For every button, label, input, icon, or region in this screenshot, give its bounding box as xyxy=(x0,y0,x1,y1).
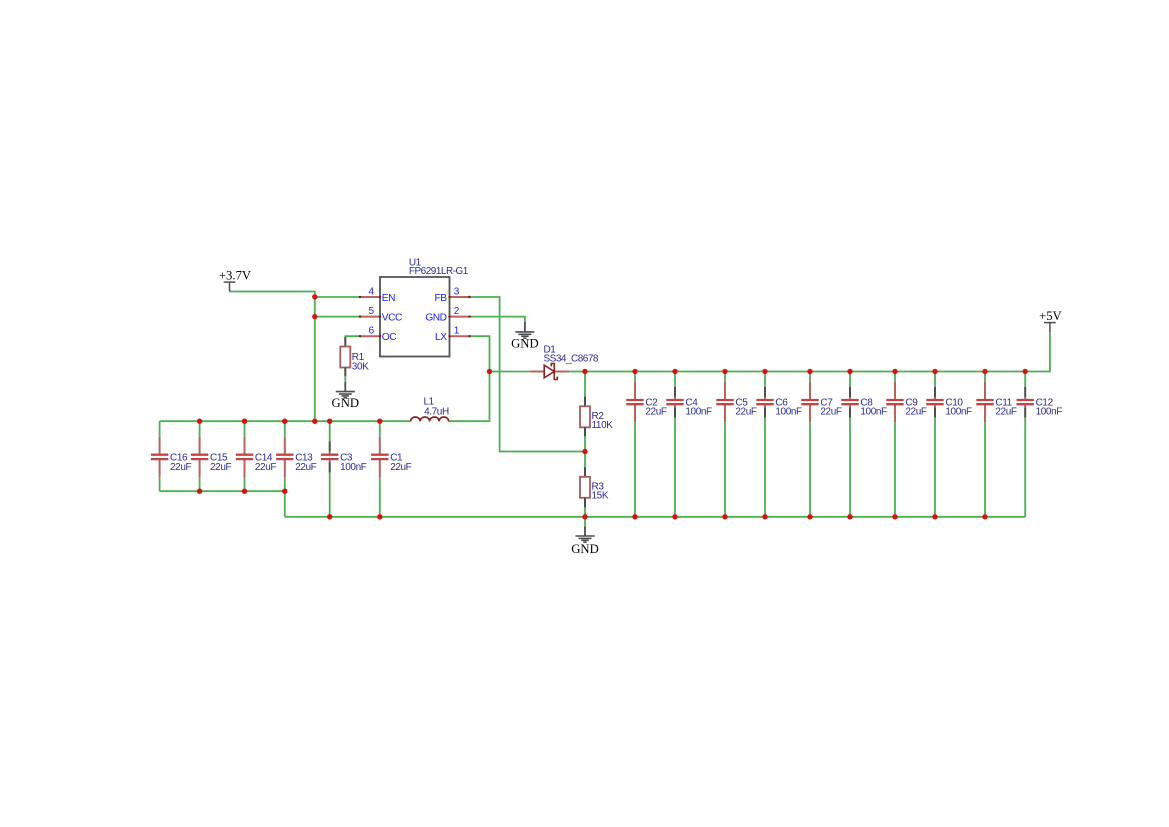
wire +3.7V net to U1 EN/VCC and VIN bus xyxy=(230,292,315,422)
svg-text:GND: GND xyxy=(511,337,539,351)
svg-text:5: 5 xyxy=(368,306,374,317)
wire FB pin to feedback node xyxy=(470,297,586,452)
node +5V bus x810 xyxy=(807,369,812,374)
svg-text:22uF: 22uF xyxy=(255,462,276,473)
svg-text:22uF: 22uF xyxy=(390,462,411,473)
node feedback R2/R3 xyxy=(582,449,587,454)
node gnd bus x329.7 xyxy=(327,514,332,519)
capacitor C16 22uF xyxy=(151,421,192,491)
node D1 cathode / R2 / +5V bus xyxy=(582,369,587,374)
capacitor C1 22uF xyxy=(371,421,412,517)
svg-text:FP6291LR-G1: FP6291LR-G1 xyxy=(409,266,469,277)
wire R3 bottom xyxy=(584,507,586,517)
svg-text:100nF: 100nF xyxy=(775,406,802,417)
capacitor C14 22uF xyxy=(236,421,277,491)
ground GND (bottom bus) xyxy=(571,527,599,556)
capacitor C8 100nF xyxy=(841,372,887,517)
svg-text:+5V: +5V xyxy=(1039,309,1062,323)
node VIN bus x199.6 xyxy=(197,419,202,424)
svg-text:OC: OC xyxy=(382,332,396,343)
wire bottom bus to ground symbol xyxy=(584,517,586,527)
node gnd bus x379.8 xyxy=(377,514,382,519)
node LX / L1 / D1 xyxy=(487,369,492,374)
svg-text:22uF: 22uF xyxy=(905,406,926,417)
node gnd bus x895 xyxy=(892,514,897,519)
node +5V bus x850 xyxy=(847,369,852,374)
node gnd bus x850 xyxy=(847,514,852,519)
svg-text:100nF: 100nF xyxy=(945,406,972,417)
node VIN bus x379.8 xyxy=(377,419,382,424)
svg-text:EN: EN xyxy=(382,293,395,304)
capacitor C2 22uF xyxy=(626,372,667,517)
svg-text:22uF: 22uF xyxy=(645,406,666,417)
svg-text:GND: GND xyxy=(425,313,446,324)
capacitor C5 22uF xyxy=(716,372,757,517)
svg-text:4.7uH: 4.7uH xyxy=(424,406,449,417)
capacitor C7 22uF xyxy=(801,372,842,517)
capacitor C3 100nF xyxy=(321,421,367,517)
svg-text:1: 1 xyxy=(454,326,460,337)
svg-text:100nF: 100nF xyxy=(340,462,367,473)
node left gnd bus x284.8 xyxy=(282,489,287,494)
svg-text:GND: GND xyxy=(571,542,599,556)
node +5V bus x895 xyxy=(892,369,897,374)
node VCC tee xyxy=(312,314,317,319)
capacitor C12 100nF xyxy=(1017,372,1063,517)
U1 pin 5 VCC xyxy=(359,306,402,324)
svg-text:100nF: 100nF xyxy=(685,406,712,417)
wire to VCC pin xyxy=(315,316,360,318)
svg-text:6: 6 xyxy=(368,326,374,337)
resistor R1 30K xyxy=(340,337,369,376)
wire ground bus (left, under C16-C13) xyxy=(160,490,285,492)
wire R1 to ground xyxy=(344,376,346,382)
op-amp U1 FP6291LR-G1 body xyxy=(380,257,469,356)
svg-text:2: 2 xyxy=(454,306,460,317)
svg-text:VCC: VCC xyxy=(382,313,402,324)
node VIN bus x284.8 xyxy=(282,419,287,424)
svg-text:22uF: 22uF xyxy=(210,462,231,473)
U1 pin 2 GND xyxy=(425,306,470,324)
svg-text:GND: GND xyxy=(332,396,360,410)
node +5V bus x675 xyxy=(672,369,677,374)
wire GND pin to ground xyxy=(470,317,525,322)
wire OC pin to R1 xyxy=(345,336,360,342)
svg-text:100nF: 100nF xyxy=(1036,406,1063,417)
node gnd bus x675 xyxy=(672,514,677,519)
svg-text:15K: 15K xyxy=(592,490,609,501)
node +5V bus x765 xyxy=(762,369,767,374)
wire R3 top xyxy=(584,452,586,468)
node gnd bus x935 xyxy=(932,514,937,519)
node gnd bus x635 xyxy=(632,514,637,519)
wire main ground bus (bottom) xyxy=(285,516,1025,518)
wire R2 top xyxy=(584,372,586,398)
U1 pin 3 FB xyxy=(434,286,470,304)
node VIN bus x329.7 xyxy=(327,419,332,424)
capacitor C15 22uF xyxy=(191,421,232,491)
node left gnd bus x199.6 xyxy=(197,489,202,494)
U1 pin 4 EN xyxy=(359,286,395,304)
node +5V bus x935 xyxy=(932,369,937,374)
node VIN bus x244.5 xyxy=(242,419,247,424)
node gnd bus x725 xyxy=(722,514,727,519)
svg-text:22uF: 22uF xyxy=(995,406,1016,417)
node R3 / ground bus xyxy=(582,514,587,519)
svg-text:22uF: 22uF xyxy=(820,406,841,417)
svg-text:4: 4 xyxy=(368,286,374,297)
svg-text:110K: 110K xyxy=(592,420,614,431)
node +5V bus x725 xyxy=(722,369,727,374)
node gnd bus x765 xyxy=(762,514,767,519)
wire C13 bus jog down xyxy=(284,491,286,517)
node left gnd bus x244.5 xyxy=(242,489,247,494)
node +5V bus x985 xyxy=(982,369,987,374)
svg-text:LX: LX xyxy=(435,332,447,343)
diode D1 SS34_C8678 xyxy=(530,344,599,379)
resistor R2 110K xyxy=(580,397,613,436)
capacitor C13 22uF xyxy=(276,421,317,491)
inductor L1 4.7uH xyxy=(411,397,449,422)
capacitor C10 100nF xyxy=(926,372,972,517)
capacitor C9 22uF xyxy=(886,372,927,517)
svg-text:3: 3 xyxy=(454,286,460,297)
capacitor C6 100nF xyxy=(756,372,802,517)
node gnd bus x985 xyxy=(982,514,987,519)
svg-text:30K: 30K xyxy=(352,361,369,372)
ground GND (R1) xyxy=(332,382,360,410)
svg-text:22uF: 22uF xyxy=(170,462,191,473)
wire D1 anode segment xyxy=(490,371,531,373)
capacitor C11 22uF xyxy=(976,372,1017,517)
power flag +3.7V xyxy=(219,269,252,292)
wire to EN pin xyxy=(315,296,360,298)
node gnd bus x810 xyxy=(807,514,812,519)
resistor R3 15K xyxy=(580,467,609,507)
wire VIN bus (left) xyxy=(160,420,411,422)
ground GND (U1 pin 2) xyxy=(511,322,539,351)
node +5V bus x1025.2 xyxy=(1022,369,1027,374)
U1 pin 6 OC xyxy=(359,326,396,344)
wire output +5V bus (top) xyxy=(585,332,1050,371)
node VIN bus tap xyxy=(312,419,317,424)
wire R2 bottom to node xyxy=(584,436,586,452)
svg-text:100nF: 100nF xyxy=(860,406,887,417)
power flag +5V xyxy=(1039,309,1062,332)
svg-text:22uF: 22uF xyxy=(735,406,756,417)
svg-text:SS34_C8678: SS34_C8678 xyxy=(544,353,599,364)
wire LX pin to D1 anode and L1 xyxy=(449,336,490,421)
wire D1 cathode segment xyxy=(569,371,585,373)
node +5V bus x635 xyxy=(632,369,637,374)
svg-text:+3.7V: +3.7V xyxy=(219,269,252,283)
capacitor C4 100nF xyxy=(666,372,712,517)
node EN tee xyxy=(312,294,317,299)
svg-text:22uF: 22uF xyxy=(295,462,316,473)
U1 pin 1 LX xyxy=(435,326,471,344)
svg-text:FB: FB xyxy=(434,293,447,304)
